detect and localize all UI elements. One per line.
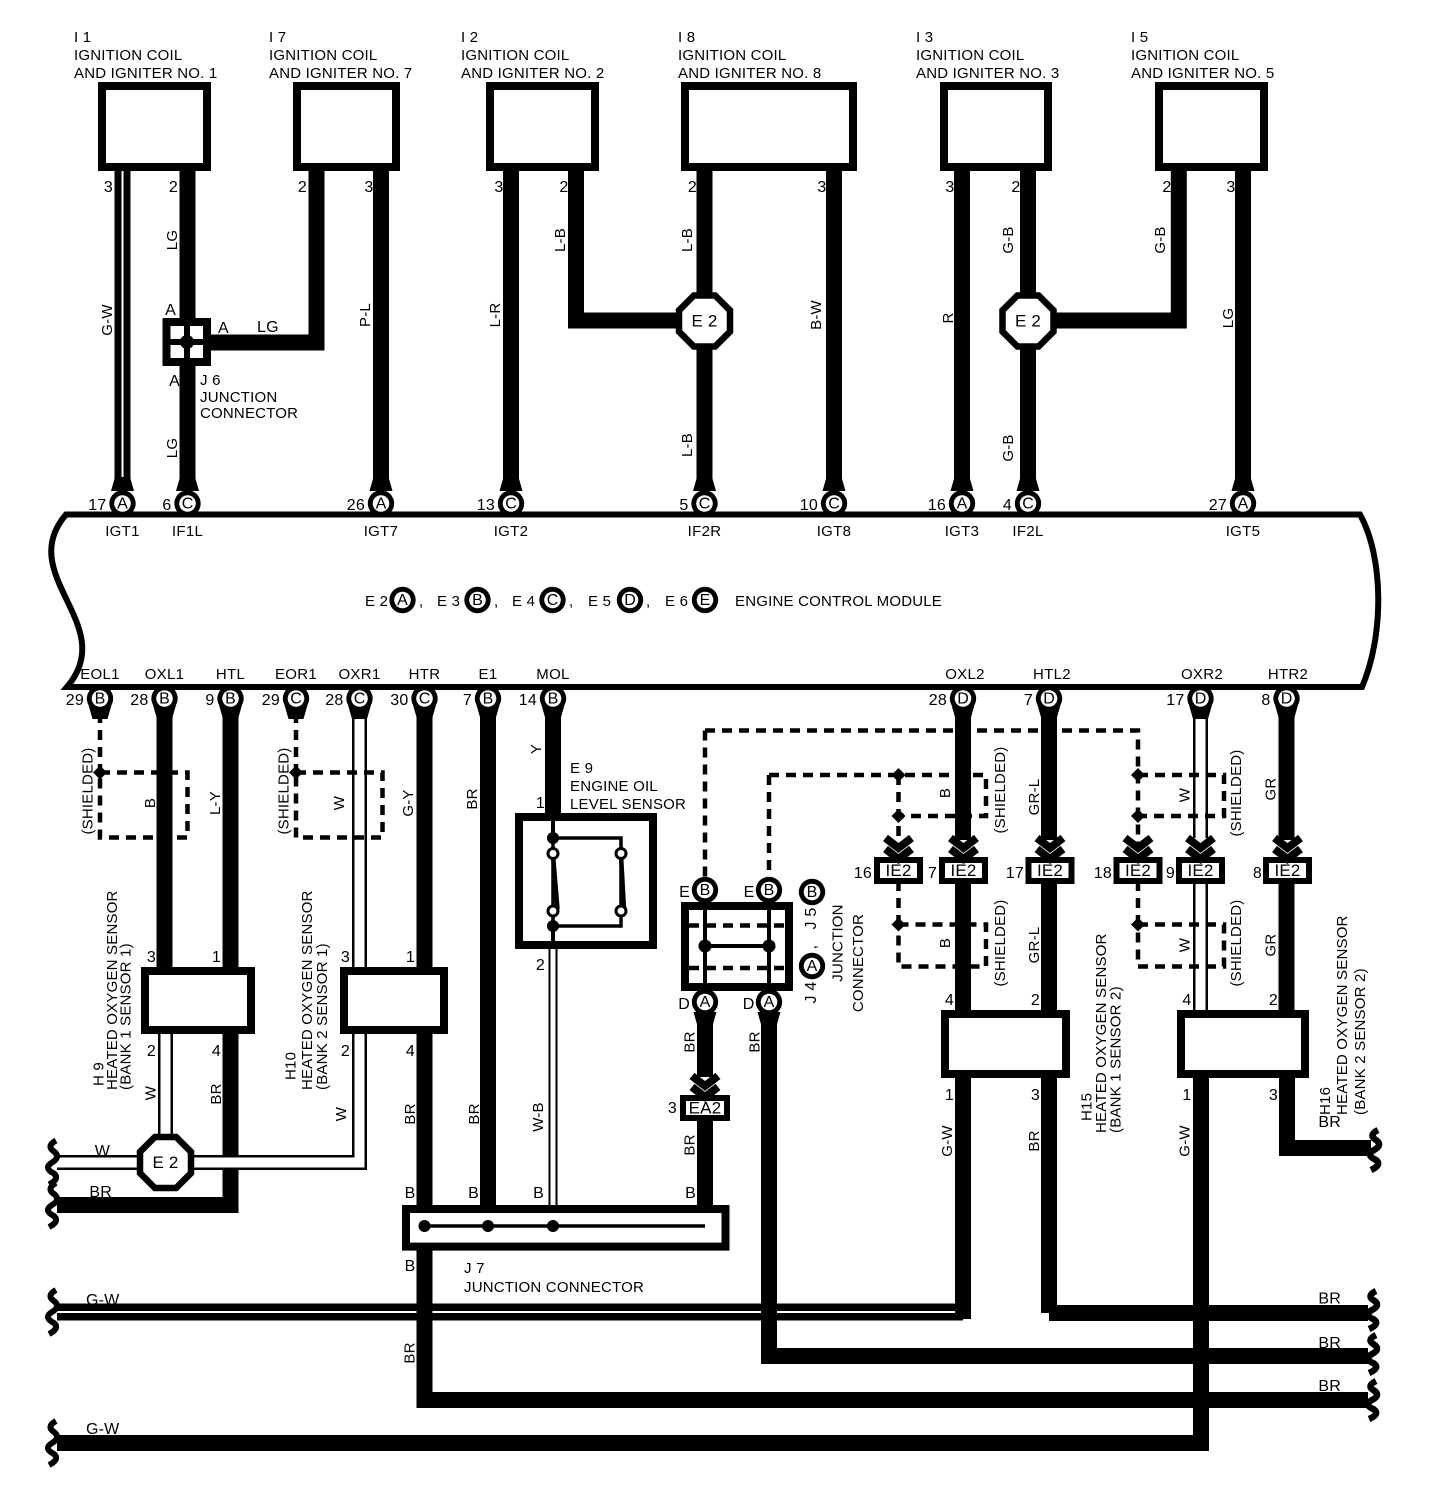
svg-text:EOR1: EOR1 [275,666,317,683]
svg-text:C: C [547,592,559,609]
svg-text:IGT8: IGT8 [817,523,852,540]
svg-text:(SHIELDED): (SHIELDED) [992,899,1009,986]
ground connector IE2 (18) box [1117,860,1160,881]
svg-text:7: 7 [928,865,937,882]
svg-text:1: 1 [536,795,545,812]
svg-text:IF2R: IF2R [688,523,722,540]
break symbol G-W bottom rail left [48,1421,57,1465]
svg-text:IF2L: IF2L [1012,523,1043,540]
wire G-Y HTR to H10 pin1 [417,712,433,971]
svg-text:,: , [419,593,423,610]
svg-text:AND IGNITER NO. 5: AND IGNITER NO. 5 [1131,65,1274,82]
svg-text:B: B [937,938,954,948]
svg-text:E 9: E 9 [570,760,593,777]
svg-text:2: 2 [298,179,307,196]
svg-text:A: A [700,994,711,1011]
svg-text:W: W [333,1106,350,1121]
svg-text:29: 29 [262,692,280,709]
ECM terminal 14 (B) bottom [542,705,565,719]
svg-text:16: 16 [928,497,946,514]
wire W-B E9 pin2 to J7 (hollow) [549,945,558,1216]
svg-text:B: B [807,884,818,901]
ground connector IE2 (17) box [1029,860,1072,881]
wire BR H9 pin4 to break [57,1030,231,1205]
svg-text:AND IGNITER NO. 1: AND IGNITER NO. 1 [74,65,217,82]
svg-text:ENGINE OIL: ENGINE OIL [570,778,658,795]
ECM terminal 8 (D) bottom [1275,705,1298,719]
svg-text:C: C [828,496,840,513]
connector E2 (splice, I8/I2 circuit) [679,296,730,347]
shield box OXR2 lower [1138,925,1224,967]
wire BR H15 pin3 to BR rail [1049,1074,1368,1313]
svg-text:4: 4 [1182,992,1191,1009]
svg-text:W: W [1177,787,1194,802]
svg-text:1: 1 [406,949,415,966]
svg-text:HTL2: HTL2 [1033,666,1071,683]
svg-text:I 3: I 3 [916,29,933,46]
svg-text:OXL2: OXL2 [945,666,985,683]
svg-text:BR: BR [1026,1130,1043,1151]
svg-text:E: E [700,592,711,609]
svg-text:E 2: E 2 [1015,312,1041,331]
svg-text:28: 28 [929,692,947,709]
legend circle (B) [464,587,490,613]
svg-text:IGNITION COIL: IGNITION COIL [269,47,377,64]
svg-text:(SHIELDED): (SHIELDED) [1228,899,1245,986]
ECM terminal 9 (B) bottom [219,705,242,719]
J4 pin D (A) right [758,1012,781,1026]
svg-text:2: 2 [688,179,697,196]
svg-text:B-W: B-W [808,299,825,329]
svg-text:17: 17 [1006,865,1024,882]
ECM terminal 17 (D) bottom [1189,705,1212,719]
break symbol G-W rail left [48,1290,57,1334]
ECM terminal 17 (A) top [111,477,134,491]
wire G-W rail (H15 pin1 to left break) [57,1304,963,1321]
ground connector IE2 (8) box [1266,860,1309,881]
svg-text:2: 2 [1162,179,1171,196]
legend circle J4 (A) [799,953,825,979]
svg-text:1: 1 [945,1087,954,1104]
svg-text:C: C [182,496,194,513]
svg-text:B: B [159,691,170,708]
svg-text:A: A [169,373,180,390]
svg-text:4: 4 [945,992,954,1009]
wire LG J6 to IF1L [180,362,196,491]
oxygen sensor H9 box [145,971,251,1030]
svg-text:IGNITION COIL: IGNITION COIL [678,47,786,64]
legend circle (A) [389,587,415,613]
arrow into IE2-16 [886,838,912,848]
svg-text:E1: E1 [479,666,498,683]
wire GR-L HTL2 to IE2 arrow [1041,712,1057,840]
wire L-B E2 octagon to IF2R [697,343,713,491]
wire BR H16 pin3 to break [1287,1074,1371,1148]
wire W IE2 to H16 pin4 (hollow) [1193,884,1208,1012]
ECM terminal 30 (C) bottom [413,705,436,719]
wire L-B I2 pin2 to E2 octagon [576,171,682,321]
svg-text:D: D [678,996,690,1013]
svg-text:2: 2 [147,1043,156,1060]
svg-text:W: W [95,1143,111,1160]
svg-text:JUNCTION: JUNCTION [200,389,277,406]
svg-text:C: C [354,691,366,708]
break symbol BR rail 1 right [1368,1291,1377,1329]
ECM terminal 26 (A) top [370,477,393,491]
svg-text:10: 10 [800,497,818,514]
ignition coil I7 box [297,86,396,167]
svg-text:HTL: HTL [216,666,245,683]
svg-text:,: , [646,593,650,610]
svg-text:J 6: J 6 [200,372,221,389]
arrow into IE2-9 [1188,838,1214,848]
svg-text:C: C [1022,496,1034,513]
svg-text:MOL: MOL [536,666,569,683]
svg-text:GR-L: GR-L [1026,927,1043,964]
ECM terminal 29 (C) bottom [285,705,308,719]
svg-text:B: B [142,798,159,808]
svg-text:D: D [957,691,969,708]
svg-text:26: 26 [347,497,365,514]
svg-text:D: D [743,996,755,1013]
svg-text:LG: LG [257,319,279,336]
ignition coil I3 box [944,86,1048,167]
oxygen sensor H10 box [344,971,444,1030]
svg-text:3: 3 [147,949,156,966]
svg-text:HTR: HTR [409,666,441,683]
svg-text:P-L: P-L [357,303,374,327]
ECM terminal 4 (C) top [1017,477,1040,491]
svg-text:3: 3 [945,179,954,196]
legend circle J5 (B) [799,879,825,905]
oxygen sensor H15 box [945,1014,1066,1074]
svg-text:IGT1: IGT1 [105,523,140,540]
svg-text:14: 14 [519,692,537,709]
svg-text:J 5: J 5 [803,908,820,930]
svg-text:4: 4 [212,1043,221,1060]
svg-text:H16: H16 [1317,1087,1334,1115]
svg-text:E: E [744,884,755,901]
ECM terminal 16 (A) top [951,477,974,491]
svg-text:B: B [700,882,711,899]
svg-text:BR: BR [682,1134,699,1155]
oxygen sensor H16 box [1181,1014,1305,1074]
svg-text:3: 3 [668,1100,677,1117]
wire W OXR1 to H10 pin3 (hollow) [352,712,367,971]
ignition coil I8 box [685,86,853,167]
svg-text:B: B [685,1185,696,1202]
svg-text:AND IGNITER NO. 2: AND IGNITER NO. 2 [461,65,604,82]
svg-text:28: 28 [130,692,148,709]
ignition coil I2 box [490,86,595,167]
svg-text:5: 5 [679,497,688,514]
svg-text:GR: GR [1263,778,1280,801]
svg-text:E 6: E 6 [665,593,688,610]
svg-text:B: B [468,1185,479,1202]
svg-text:3: 3 [341,949,350,966]
wire Y MOL to E9 pin1 [545,712,561,820]
wire W break to E2 octagon (hollow) [57,1155,142,1170]
svg-text:IGNITION COIL: IGNITION COIL [916,47,1024,64]
svg-text:BR: BR [464,788,481,809]
ECM terminal 10 (C) top [823,477,846,491]
svg-text:G-B: G-B [1152,226,1169,253]
svg-text:IF1L: IF1L [172,523,203,540]
wire P-L I7 pin3 to IGT7 [373,171,389,491]
legend circle (C) [539,587,565,613]
svg-text:I 8: I 8 [678,29,695,46]
J6 internal cross [167,324,208,362]
wire BR EA2 to J7 [697,1119,713,1222]
shield box OXL2 lower [899,925,987,967]
wire LG I5 pin3 to IGT5 [1235,171,1251,491]
svg-text:BR: BR [1318,1335,1341,1352]
svg-text:1: 1 [212,949,221,966]
arrow into EA2 [692,1076,718,1086]
svg-text:OXL1: OXL1 [145,666,185,683]
junction connector J7 box [406,1209,726,1247]
wire G-B E2 octagon to IF2L [1020,343,1036,491]
svg-text:,: , [569,593,573,610]
svg-text:C: C [699,496,711,513]
svg-text:LG: LG [164,230,181,250]
svg-text:IGT5: IGT5 [1226,523,1261,540]
junction connector J6 box [167,322,208,362]
wire GR HTR2 to IE2 arrow [1279,712,1295,840]
svg-text:EOL1: EOL1 [80,666,120,683]
ECM terminal 28 (D) bottom [952,705,975,719]
svg-text:A: A [957,496,968,513]
svg-text:3: 3 [817,179,826,196]
svg-text:27: 27 [1209,497,1227,514]
wire BR J7 to BR rail [425,1246,1369,1400]
svg-text:CONNECTOR: CONNECTOR [200,405,298,422]
wire BR J4 pin D-A to BR rail [769,1015,1368,1356]
svg-text:J 7: J 7 [464,1260,485,1277]
svg-text:CONNECTOR: CONNECTOR [850,914,867,1012]
ECM terminal 27 (A) top [1232,477,1255,491]
svg-text:L-B: L-B [552,228,569,252]
svg-text:A: A [165,302,176,319]
svg-text:3: 3 [494,179,503,196]
svg-text:B: B [937,788,954,798]
svg-text:LG: LG [1220,308,1237,328]
ignition coil I5 box [1159,86,1264,167]
svg-text:16: 16 [854,865,872,882]
svg-text:JUNCTION CONNECTOR: JUNCTION CONNECTOR [464,1279,644,1296]
svg-text:A: A [376,496,387,513]
svg-text:AND IGNITER NO. 8: AND IGNITER NO. 8 [678,65,821,82]
svg-text:1: 1 [1182,1087,1191,1104]
svg-text:E 2: E 2 [691,312,717,331]
ECM terminal 29 (B) bottom [89,705,112,719]
svg-text:C: C [290,691,302,708]
svg-text:G-B: G-B [1000,226,1017,253]
svg-text:28: 28 [325,692,343,709]
svg-text:G-Y: G-Y [400,789,417,816]
svg-text:BR: BR [1318,1114,1341,1131]
svg-text:BR: BR [89,1184,112,1201]
svg-text:A: A [117,496,128,513]
svg-text:E: E [679,884,690,901]
E9 internal level-sensor symbol [551,821,555,838]
wire GR IE2 to H16 pin2 [1279,882,1295,1012]
svg-text:2: 2 [1269,992,1278,1009]
svg-text:(SHIELDED): (SHIELDED) [276,747,293,834]
svg-text:B: B [483,691,494,708]
svg-text:G-W: G-W [1177,1125,1194,1157]
svg-text:IGNITION COIL: IGNITION COIL [1131,47,1239,64]
svg-text:C: C [505,496,517,513]
wire L-R I2 pin3 to IGT2 [503,171,519,491]
wire G-B I3 pin2 to E2 octagon [1020,171,1036,300]
oil level sensor E9 box [519,817,653,945]
svg-text:AND IGNITER NO. 7: AND IGNITER NO. 7 [269,65,412,82]
wire G-B I5 pin2 to E2 octagon [1051,171,1179,321]
svg-text:2: 2 [169,179,178,196]
svg-text:D: D [624,592,636,609]
svg-text:2: 2 [536,957,545,974]
svg-text:(BANK 2 SENSOR 1): (BANK 2 SENSOR 1) [314,943,331,1090]
svg-text:(SHIELDED): (SHIELDED) [992,746,1009,833]
svg-text:29: 29 [66,692,84,709]
svg-text:7: 7 [463,692,472,709]
svg-text:C: C [419,691,431,708]
svg-text:D: D [1195,691,1207,708]
svg-text:(BANK 1 SENSOR 1): (BANK 1 SENSOR 1) [118,943,135,1090]
svg-text:4: 4 [406,1043,415,1060]
ground connector EA2 box [683,1098,727,1118]
svg-text:17: 17 [88,497,106,514]
svg-text:I 1: I 1 [74,29,91,46]
ground connector IE2 (9) box [1179,860,1222,881]
svg-text:B: B [548,691,559,708]
svg-text:A: A [1238,496,1249,513]
svg-text:8: 8 [1253,865,1262,882]
wire G-W H15 pin1 vertical [955,1074,971,1319]
svg-text:A: A [218,320,229,337]
svg-text:17: 17 [1166,692,1184,709]
svg-text:E 2: E 2 [152,1153,178,1172]
wire L-B I8 pin2 to E2 octagon [697,171,713,300]
svg-text:2: 2 [341,1043,350,1060]
svg-text:B: B [95,691,106,708]
ignition coil I1 box [102,86,207,167]
ECM terminal 13 (C) top [500,477,523,491]
svg-text:HTR2: HTR2 [1268,666,1308,683]
svg-text:BR: BR [402,1103,419,1124]
shield EOR1 drain [294,713,299,773]
svg-text:BR: BR [1318,1378,1341,1395]
svg-text:B: B [472,592,483,609]
svg-text:W: W [143,1085,160,1100]
svg-text:HEATED OXYGEN SENSOR: HEATED OXYGEN SENSOR [1334,915,1351,1115]
svg-text:BR: BR [747,1031,764,1052]
J4 pin E (B) left [692,877,718,903]
svg-text:2: 2 [559,179,568,196]
svg-text:IGNITION COIL: IGNITION COIL [74,47,182,64]
svg-text:G-W: G-W [939,1125,956,1157]
break symbol BR rail 3 right [1368,1381,1377,1419]
J4 pin D (A) left [694,1012,717,1026]
wire W H9 pin2 to E2 octagon (hollow) [158,1030,173,1140]
ECM terminal 6 (C) top [176,477,199,491]
svg-text:L-B: L-B [679,228,696,252]
svg-text:R: R [940,312,957,323]
svg-text:4: 4 [1003,497,1012,514]
J4 pin E (B) right [756,877,782,903]
svg-text:L-R: L-R [487,303,504,328]
svg-text:I 7: I 7 [269,29,286,46]
svg-text:IGT3: IGT3 [945,523,980,540]
svg-text:OXR1: OXR1 [338,666,380,683]
wire LG J6 to I7 pin2 [208,171,317,343]
wire L-Y HTL to H9 pin1 [223,712,239,971]
svg-text:I 5: I 5 [1131,29,1148,46]
svg-text:G-B: G-B [1000,434,1017,461]
svg-text:E 2: E 2 [365,593,388,610]
arrow into IE2-17 [1037,838,1063,848]
svg-text:B: B [764,882,775,899]
wire B-W I8 pin3 to IGT8 [826,171,842,491]
svg-text:3: 3 [104,179,113,196]
wire G-W H16 pin1 to bottom G-W rail [57,1074,1201,1443]
svg-text:W: W [1177,937,1194,952]
break symbol BR rail 2 right [1368,1335,1377,1373]
svg-text:A: A [807,958,818,975]
svg-text:3: 3 [364,179,373,196]
svg-text:H10: H10 [283,1052,300,1080]
svg-text:9: 9 [205,692,214,709]
wire BR H10 pin4 to J7 [417,1030,433,1222]
ground connector IE2 (16) box [877,860,920,881]
break symbol BR H16 right [1370,1130,1379,1170]
legend circle (E) [692,587,718,613]
svg-text:7: 7 [1024,692,1033,709]
svg-text:D: D [1281,691,1293,708]
svg-text:18: 18 [1094,865,1112,882]
wire W E2 octagon to H10 pin2 (hollow) [189,1030,360,1163]
connector E2 (splice, I3/I5 circuit) [1003,296,1054,347]
svg-text:IGT7: IGT7 [364,523,399,540]
svg-text:B: B [405,1185,416,1202]
shield OXR2 lower drain [1136,881,1141,925]
ECM terminal 5 (C) top [693,477,716,491]
wire B OXL1 to H9 pin3 [157,712,173,971]
svg-text:B: B [405,1258,416,1275]
shield box OXR1 [296,773,383,838]
svg-text:9: 9 [1166,865,1175,882]
break symbol BR wire left [48,1183,57,1227]
svg-text:,: , [494,593,498,610]
svg-text:6: 6 [162,497,171,514]
shield line J4 to IE2-18 (OXR2) [705,731,1138,849]
svg-text:BR: BR [1318,1291,1341,1308]
svg-text:3: 3 [1031,1087,1040,1104]
ECM terminal 7 (D) bottom [1038,705,1061,719]
svg-text:JUNCTION: JUNCTION [830,904,847,981]
svg-text:W-B: W-B [530,1102,547,1132]
svg-text:(SHIELDED): (SHIELDED) [80,747,97,834]
wire BR J4 pin D-A to EA2 arrow [697,1013,713,1077]
shield box OXL1 [100,773,188,838]
svg-text:D: D [1043,691,1055,708]
svg-text:8: 8 [1261,692,1270,709]
svg-text:(SHIELDED): (SHIELDED) [1228,749,1245,836]
wire W OXR2 to IE2 arrow (hollow) [1193,712,1208,838]
wire R I3 pin3 to IGT3 [954,171,970,491]
junction connector J4/J5 box [685,906,789,987]
